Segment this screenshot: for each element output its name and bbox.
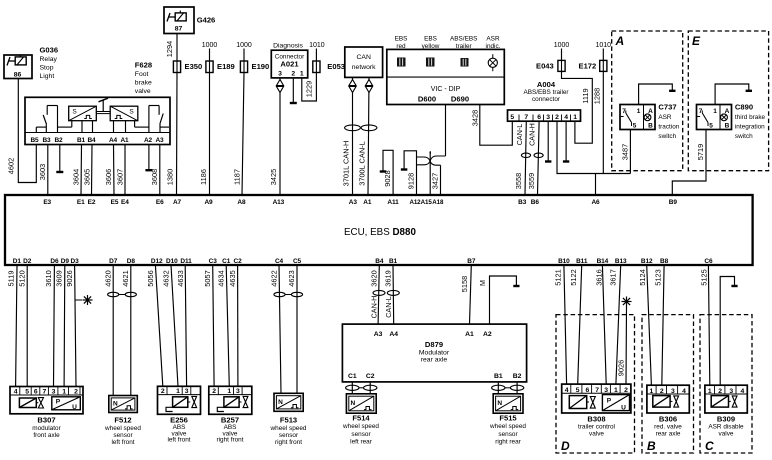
svg-text:3608: 3608 <box>150 169 159 185</box>
svg-text:1: 1 <box>300 71 304 78</box>
svg-text:Diagnosis: Diagnosis <box>273 43 303 50</box>
svg-text:C890: C890 <box>735 103 753 112</box>
svg-text:sensor: sensor <box>498 431 518 438</box>
svg-text:B11: B11 <box>576 258 588 265</box>
svg-text:B13: B13 <box>615 258 627 265</box>
svg-text:C: C <box>705 439 714 453</box>
wire 4635 (ECU C2 to B257 pin 3) <box>237 265 239 386</box>
svg-text:red: red <box>396 43 406 50</box>
VIC-DIP display unit D600 D690 <box>387 49 505 104</box>
svg-text:1119: 1119 <box>581 88 590 103</box>
svg-text:D600: D600 <box>418 95 436 104</box>
wire 3606 (F628 A4 to ECU E5) <box>113 145 116 196</box>
svg-text:9026: 9026 <box>65 270 74 286</box>
svg-text:1: 1 <box>637 108 641 115</box>
svg-text:9128: 9128 <box>406 173 415 189</box>
svg-text:B9: B9 <box>669 199 678 206</box>
svg-text:9028: 9028 <box>383 170 392 186</box>
svg-text:left front: left front <box>167 437 190 444</box>
svg-text:1010: 1010 <box>596 42 612 49</box>
svg-text:ABS/EBS: ABS/EBS <box>450 36 477 43</box>
wire 3607 (F628 A1 to ECU E4) <box>124 145 126 196</box>
relief valve rear axle B306 <box>647 385 689 413</box>
CAN network box <box>345 47 383 77</box>
svg-text:1010: 1010 <box>309 42 325 49</box>
wire 3604 (F628 B1 to ECU E1) <box>80 145 83 196</box>
svg-text:C6: C6 <box>704 258 713 265</box>
svg-text:D6: D6 <box>50 258 59 265</box>
ground wire (B309 pin 2) <box>720 277 734 386</box>
third brake integration switch C890 <box>697 105 732 130</box>
svg-text:A13: A13 <box>273 199 285 206</box>
svg-text:B10: B10 <box>558 258 570 265</box>
fuse E053 <box>313 61 320 73</box>
relay G426 <box>164 7 194 34</box>
svg-text:N: N <box>351 400 356 407</box>
wire 3619 CAN-L (ECU B1 to D879 A4) <box>392 265 395 324</box>
svg-text:network: network <box>352 64 376 71</box>
svg-text:A3: A3 <box>349 199 358 206</box>
svg-text:B2: B2 <box>513 373 522 380</box>
svg-text:4635: 4635 <box>228 270 237 286</box>
svg-text:3606: 3606 <box>104 169 113 185</box>
svg-text:4623: 4623 <box>287 270 296 286</box>
svg-text:wheel speed: wheel speed <box>104 425 141 432</box>
indicator EBS yellow <box>426 58 435 67</box>
svg-text:3: 3 <box>52 388 56 395</box>
wheel speed sensor F513 <box>274 393 303 411</box>
svg-text:1: 1 <box>176 388 180 395</box>
svg-text:G426: G426 <box>197 16 216 25</box>
svg-text:3604: 3604 <box>71 169 80 185</box>
svg-text:A12: A12 <box>409 199 421 206</box>
svg-text:3: 3 <box>185 388 189 395</box>
dashed option box A <box>612 31 683 171</box>
svg-text:B1: B1 <box>77 137 86 144</box>
F628 right brake switch <box>148 106 150 133</box>
svg-text:B5: B5 <box>30 137 39 144</box>
svg-text:sensor: sensor <box>279 432 299 439</box>
svg-text:sensor: sensor <box>351 431 371 438</box>
svg-text:3605: 3605 <box>82 169 91 185</box>
svg-text:5124: 5124 <box>638 269 647 285</box>
wire 5125 (ECU C6 to B309 pin 1) <box>708 265 709 385</box>
svg-text:B4: B4 <box>87 137 96 144</box>
svg-text:D3: D3 <box>71 258 80 265</box>
svg-text:brake: brake <box>135 80 152 87</box>
wire (VIC-DIP D690 down to twisted pair) <box>445 105 447 157</box>
wire 5122 (ECU B11 to B308 pin 5) <box>578 265 582 384</box>
svg-text:P: P <box>607 398 612 405</box>
F628 left travel sensor S <box>69 106 97 121</box>
wire 4602 (G036 to F628 pin B5) <box>18 79 36 183</box>
svg-text:ASR disable: ASR disable <box>708 423 744 430</box>
svg-text:N: N <box>497 400 502 407</box>
dashed option box E <box>688 31 768 171</box>
ground (A004 pin 4) <box>565 121 567 161</box>
wire 1380 (E350 to ECU A7) <box>176 73 179 196</box>
svg-text:B: B <box>725 123 730 130</box>
wire 4633 (ECU D11 to E256 pin 3) <box>185 265 186 386</box>
svg-text:C737: C737 <box>658 103 676 112</box>
wire 4634 (ECU C1 to B257 pin 1) <box>226 265 229 386</box>
svg-text:3: 3 <box>546 114 550 121</box>
svg-text:yellow: yellow <box>422 43 440 50</box>
svg-text:4622: 4622 <box>269 270 278 286</box>
svg-text:2: 2 <box>624 387 628 394</box>
svg-text:3609: 3609 <box>55 270 64 286</box>
svg-text:E4: E4 <box>121 199 129 206</box>
F628 brake pedal symbol <box>102 101 104 112</box>
wire 3605 (F628 B4 to ECU E2) <box>91 145 94 196</box>
wheel speed sensor F515 <box>493 394 523 413</box>
wire (D879 C2 to F514) <box>369 382 371 394</box>
wire 3610 (ECU D6 to B307 pin 3) <box>53 265 56 387</box>
svg-text:indic.: indic. <box>486 43 501 50</box>
svg-text:C3: C3 <box>209 258 218 265</box>
wire (A004 pin 2 to ECU A6 net) <box>557 121 630 173</box>
dashed option box C <box>700 315 752 453</box>
ground (F628 B2) <box>59 145 61 172</box>
svg-text:wheel speed: wheel speed <box>342 423 379 430</box>
trailer control valve B308 <box>562 384 631 413</box>
wire (C890 pin 1 to ground) <box>715 84 749 105</box>
svg-text:1: 1 <box>62 388 66 395</box>
svg-text:5: 5 <box>633 123 637 130</box>
wire 3700L CAN-L (CAN network to ECU A1) <box>368 77 369 195</box>
svg-text:1186: 1186 <box>199 169 208 185</box>
relay G036 <box>4 55 32 79</box>
wire 5123 (ECU B8 to B306 pin 2) <box>662 265 664 385</box>
svg-text:3559: 3559 <box>527 173 536 189</box>
fuse E189 <box>206 61 213 73</box>
svg-text:1229: 1229 <box>304 81 313 97</box>
svg-text:3428: 3428 <box>470 110 479 126</box>
svg-text:7: 7 <box>43 388 47 395</box>
svg-text:valve: valve <box>135 88 151 95</box>
svg-text:B1: B1 <box>494 373 503 380</box>
svg-text:3610: 3610 <box>44 270 53 286</box>
svg-text:3607: 3607 <box>116 169 125 185</box>
svg-text:A2: A2 <box>144 137 153 144</box>
wire 3608 (F628 A3 to ECU E6) <box>159 145 161 196</box>
svg-text:D7: D7 <box>109 258 118 265</box>
svg-text:P: P <box>56 399 61 406</box>
svg-text:A1: A1 <box>120 137 129 144</box>
svg-text:C1: C1 <box>348 373 357 380</box>
svg-text:F515: F515 <box>499 413 517 422</box>
svg-text:1: 1 <box>573 114 577 121</box>
wire 4621 (ECU D8 to F512) <box>130 265 132 396</box>
wire (D879 B2 to F515) <box>516 382 518 394</box>
svg-text:4: 4 <box>682 388 686 395</box>
wire 4622 (ECU C4 to F513) <box>279 265 281 393</box>
wire 9028 (stub to ECU A11) <box>383 150 393 195</box>
svg-text:5120: 5120 <box>17 270 26 286</box>
svg-text:C1: C1 <box>222 258 231 265</box>
svg-text:1000: 1000 <box>202 42 218 49</box>
svg-text:2: 2 <box>660 388 664 395</box>
svg-text:right front: right front <box>217 437 244 444</box>
svg-text:C2: C2 <box>366 373 375 380</box>
wire 4632 (ECU D10 to E256 pin 1) <box>171 265 178 386</box>
svg-text:E172: E172 <box>579 62 597 71</box>
indicator ABS/EBS trailer <box>461 58 469 67</box>
svg-text:CAN: CAN <box>357 54 371 61</box>
svg-text:87: 87 <box>175 26 183 33</box>
svg-text:modulator: modulator <box>32 425 61 432</box>
svg-text:B308: B308 <box>587 414 605 423</box>
fuse E350 <box>173 61 180 73</box>
svg-text:valve: valve <box>589 430 604 437</box>
svg-text:5119: 5119 <box>6 271 15 287</box>
svg-text:B12: B12 <box>641 258 653 265</box>
svg-text:Modulator: Modulator <box>419 349 450 356</box>
svg-text:A1: A1 <box>363 199 372 206</box>
svg-text:connector: connector <box>532 96 561 103</box>
svg-text:A: A <box>615 34 625 48</box>
svg-text:3: 3 <box>236 388 240 395</box>
svg-text:3616: 3616 <box>595 269 604 285</box>
svg-text:A11: A11 <box>387 199 399 206</box>
B308 pressure sensor P/U <box>602 395 629 411</box>
svg-text:rear axle: rear axle <box>656 430 681 437</box>
svg-text:E190: E190 <box>252 62 270 71</box>
svg-text:A3: A3 <box>155 137 164 144</box>
svg-text:1000: 1000 <box>236 42 252 49</box>
svg-text:Relay: Relay <box>40 56 58 63</box>
svg-text:A4: A4 <box>109 137 118 144</box>
svg-text:B307: B307 <box>37 416 55 425</box>
svg-text:5121: 5121 <box>554 269 563 285</box>
wire 9026 (star to B308 pin 2) <box>625 307 628 385</box>
svg-text:5125: 5125 <box>700 269 709 285</box>
svg-text:1: 1 <box>227 388 231 395</box>
wire 3620 CAN-H (ECU B4 to D879 A3) <box>378 265 379 324</box>
svg-text:5719: 5719 <box>696 144 705 160</box>
svg-text:A021: A021 <box>280 60 299 69</box>
svg-text:4620: 4620 <box>104 270 113 286</box>
svg-text:3: 3 <box>671 388 675 395</box>
svg-text:B14: B14 <box>597 258 609 265</box>
B307 solenoid valve symbol <box>19 398 36 408</box>
footnote star (wire 9026 rear) <box>622 301 632 303</box>
wire 4620 (ECU D7 to F512) <box>112 265 114 396</box>
svg-text:5158: 5158 <box>460 276 469 292</box>
svg-text:trailer: trailer <box>456 43 473 50</box>
B306 solenoid valve symbol <box>653 396 670 408</box>
ground (A021 pin 2) <box>292 78 294 103</box>
dashed option box B <box>642 315 694 453</box>
svg-text:3700L CAN-L: 3700L CAN-L <box>358 141 367 186</box>
E256 solenoid valve symbol <box>173 397 188 408</box>
svg-text:B4: B4 <box>375 258 384 265</box>
svg-text:wheel speed: wheel speed <box>489 423 526 430</box>
fuse E172 <box>600 60 607 71</box>
svg-text:ASR: ASR <box>486 36 500 43</box>
wire 3427 (twisted pair to ECU A18) <box>440 165 442 195</box>
wire 3617 (ECU B13 to B308 pin 1) <box>616 265 621 384</box>
wire 5119 (ECU D1 to B307 pin 4) <box>16 265 17 387</box>
svg-text:EBS: EBS <box>395 36 408 43</box>
svg-text:U: U <box>72 404 77 411</box>
foot brake valve F628 <box>25 97 170 144</box>
svg-text:4: 4 <box>564 114 568 121</box>
dashed option box D <box>556 315 635 453</box>
svg-text:right front: right front <box>275 439 302 446</box>
svg-text:B3: B3 <box>518 199 527 206</box>
modulator rear axle D879 <box>342 324 526 382</box>
ASR disable valve B309 <box>705 385 747 413</box>
svg-text:4602: 4602 <box>6 158 15 174</box>
F628 left brake switch <box>35 127 37 132</box>
svg-text:A2: A2 <box>483 331 492 338</box>
svg-text:86: 86 <box>14 72 22 79</box>
svg-text:integration: integration <box>735 124 765 131</box>
svg-text:1187: 1187 <box>232 169 241 185</box>
svg-text:E053: E053 <box>327 62 345 71</box>
fuse E190 <box>240 61 247 73</box>
svg-text:left front: left front <box>111 439 134 446</box>
svg-text:C2: C2 <box>234 258 243 265</box>
svg-text:A4: A4 <box>389 331 398 338</box>
svg-text:4633: 4633 <box>176 270 185 286</box>
svg-text:E5: E5 <box>111 199 119 206</box>
svg-text:valve: valve <box>719 430 734 437</box>
svg-text:A7: A7 <box>173 199 182 206</box>
B307 pressure sensor P/U <box>52 397 81 410</box>
svg-text:3620: 3620 <box>369 270 378 286</box>
svg-text:D11: D11 <box>180 258 192 265</box>
wire 1186 (E189 to ECU A9) <box>209 73 211 196</box>
svg-text:3: 3 <box>278 71 282 78</box>
svg-text:4: 4 <box>565 387 569 394</box>
svg-text:3425: 3425 <box>269 169 278 185</box>
svg-text:S: S <box>72 109 77 116</box>
svg-text:E3: E3 <box>43 199 51 206</box>
svg-text:rear axle: rear axle <box>421 357 448 364</box>
svg-text:Stop: Stop <box>40 65 54 72</box>
footnote star (wire 9026 front) <box>75 299 82 301</box>
svg-text:6: 6 <box>586 387 590 394</box>
svg-text:1: 1 <box>713 108 717 115</box>
wire 1288 (E172 to A004 pin 2 net) <box>602 71 604 173</box>
svg-text:7: 7 <box>524 114 528 121</box>
svg-text:3619: 3619 <box>383 270 392 286</box>
wire 5057 (ECU C3 to B257 pin 2) <box>213 265 214 386</box>
svg-text:sensor: sensor <box>113 432 133 439</box>
svg-text:5: 5 <box>510 114 514 121</box>
svg-text:B3: B3 <box>42 137 51 144</box>
B257 solenoid valve symbol <box>224 397 239 408</box>
svg-text:switch: switch <box>735 133 753 140</box>
svg-text:traction: traction <box>658 124 679 131</box>
wire 3609 (ECU D9 to B307 pin 1) <box>63 265 66 387</box>
svg-text:CAN-H: CAN-H <box>528 123 537 146</box>
svg-text:E1: E1 <box>77 199 85 206</box>
svg-text:1288: 1288 <box>593 88 602 104</box>
svg-text:3558: 3558 <box>514 173 523 189</box>
svg-text:5122: 5122 <box>569 269 578 285</box>
svg-text:1000: 1000 <box>554 42 570 49</box>
svg-text:S: S <box>129 109 134 116</box>
ground (A004 pin 3) <box>547 121 549 161</box>
svg-text:trailer control: trailer control <box>578 423 615 430</box>
svg-text:switch: switch <box>658 133 676 140</box>
svg-text:D879: D879 <box>425 340 443 349</box>
modulator front axle B307 <box>10 387 83 414</box>
svg-text:CAN-H: CAN-H <box>370 296 379 319</box>
svg-text:EBS: EBS <box>424 36 437 43</box>
svg-text:9026: 9026 <box>616 360 625 376</box>
svg-text:D1: D1 <box>13 258 22 265</box>
wire 1294 (G426 to fuse E350) <box>176 34 178 62</box>
svg-text:B306: B306 <box>659 414 677 423</box>
svg-text:3617: 3617 <box>608 269 617 285</box>
svg-text:right rear: right rear <box>495 438 521 445</box>
svg-text:F513: F513 <box>280 416 297 425</box>
svg-text:D2: D2 <box>23 258 32 265</box>
svg-text:E350: E350 <box>185 62 203 71</box>
svg-text:5: 5 <box>709 123 713 130</box>
svg-text:front axle: front axle <box>33 432 60 439</box>
svg-text:F628: F628 <box>135 61 152 70</box>
svg-text:U: U <box>621 405 626 412</box>
svg-text:3487: 3487 <box>620 144 629 160</box>
svg-text:D9: D9 <box>61 258 70 265</box>
wire 3559 CAN-H (A004 pin 6 to ECU B6) <box>538 121 540 195</box>
svg-text:4: 4 <box>14 388 18 395</box>
svg-text:1: 1 <box>650 388 654 395</box>
svg-text:C5: C5 <box>293 258 302 265</box>
svg-text:B2: B2 <box>54 137 63 144</box>
wire 1229 (A021 pin 1 to fuse E053) <box>302 73 317 101</box>
wire (center conductor to ECU A15) <box>429 152 432 154</box>
svg-text:4621: 4621 <box>121 270 130 286</box>
svg-text:5057: 5057 <box>203 270 212 286</box>
svg-text:D: D <box>561 439 570 453</box>
svg-text:Light: Light <box>40 73 55 80</box>
svg-text:B1: B1 <box>389 258 398 265</box>
svg-text:2: 2 <box>555 114 559 121</box>
svg-text:A18: A18 <box>432 199 444 206</box>
fuse E043 <box>558 60 565 71</box>
svg-text:F514: F514 <box>352 413 370 422</box>
svg-text:B6: B6 <box>531 199 540 206</box>
svg-text:B309: B309 <box>717 414 735 423</box>
svg-text:3603: 3603 <box>38 164 47 180</box>
svg-text:5056: 5056 <box>146 270 155 286</box>
svg-text:3: 3 <box>604 387 608 394</box>
svg-text:wheel speed: wheel speed <box>270 425 307 432</box>
svg-text:M: M <box>478 280 487 286</box>
svg-text:ECU, EBS D880: ECU, EBS D880 <box>344 227 416 238</box>
svg-text:C4: C4 <box>275 258 284 265</box>
ABS valve left front E256 <box>158 386 201 414</box>
wheel speed sensor F512 <box>109 396 138 413</box>
svg-text:left rear: left rear <box>350 438 373 445</box>
svg-text:A1: A1 <box>465 331 474 338</box>
svg-text:red. valve: red. valve <box>654 423 682 430</box>
svg-text:1: 1 <box>614 387 618 394</box>
wire 5121 (ECU B10 to B308 pin 4) <box>564 265 567 384</box>
svg-text:A15: A15 <box>421 199 433 206</box>
svg-text:D12: D12 <box>151 258 163 265</box>
svg-text:2: 2 <box>291 71 295 78</box>
svg-text:4: 4 <box>741 388 745 395</box>
svg-text:6: 6 <box>34 388 38 395</box>
ground (F628 A2) <box>148 145 150 170</box>
